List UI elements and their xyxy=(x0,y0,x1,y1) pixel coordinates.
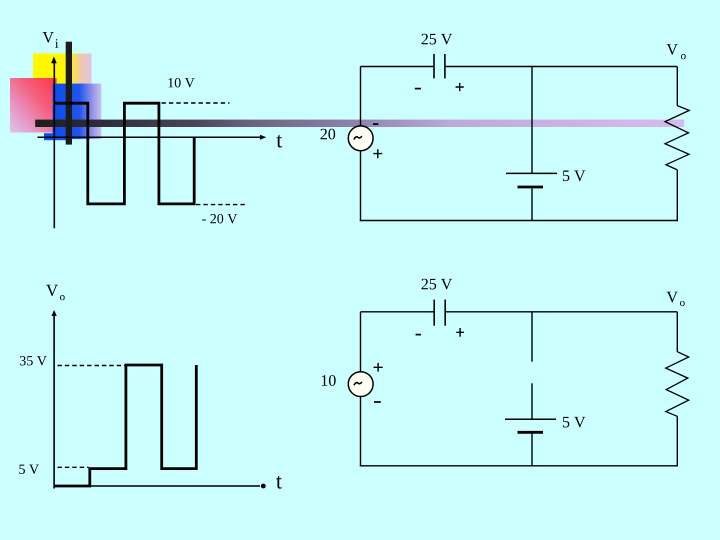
wire middle branch upper (top circuit) xyxy=(531,67,533,174)
wire middle branch upper (bottom circuit, above gap) xyxy=(531,312,533,362)
t axis (top waveform) xyxy=(38,136,261,138)
t axis end dot (bottom waveform) xyxy=(261,484,266,489)
label Vo (top circuit) xyxy=(667,44,678,55)
label 5 V (top battery) xyxy=(563,171,585,182)
ac source V1 circle xyxy=(348,126,373,151)
wire left branch lower (bottom circuit) xyxy=(360,396,362,466)
minus sign of V1 xyxy=(373,123,378,125)
dashed 10V reference line xyxy=(162,102,230,104)
label 35 V xyxy=(20,356,47,365)
battery B1 5 V: long plate xyxy=(506,172,557,174)
label Vo (waveform) xyxy=(46,285,58,296)
Vi vertical axis arrowhead xyxy=(51,57,57,64)
label t (bottom waveform) xyxy=(276,476,282,489)
label 25 V (bottom capacitor) xyxy=(422,279,453,290)
Vo vertical axis arrowhead xyxy=(52,310,57,316)
decorative yellow gradient square xyxy=(33,54,92,86)
wire bottom (top circuit) xyxy=(360,220,678,222)
decorative horizontal gradient bar xyxy=(35,120,684,127)
wire right branch upper (bottom circuit) xyxy=(676,312,678,352)
wire middle branch below gap (bottom circuit) xyxy=(531,383,533,419)
resistor R1 zigzag xyxy=(665,106,689,170)
wire right branch upper (top circuit) xyxy=(676,67,678,106)
minus sign of C1 xyxy=(415,88,421,90)
label 10 V xyxy=(168,78,194,88)
dashed 35V reference line xyxy=(58,365,125,367)
Vi vertical axis xyxy=(53,62,55,228)
label t (top waveform) xyxy=(276,135,282,148)
wire left branch upper (bottom circuit) xyxy=(360,312,362,372)
Vo vertical axis xyxy=(53,314,55,489)
dashed 5V reference line xyxy=(58,466,89,468)
wire middle branch lower (bottom circuit) xyxy=(531,434,533,466)
minus sign of C2 xyxy=(416,334,421,336)
capacitor C1 25 V: right plate xyxy=(444,54,446,78)
wire top left segment xyxy=(361,66,434,68)
capacitor C2 25 V: left plate xyxy=(433,300,435,326)
label 20 (source value) xyxy=(321,129,336,140)
wire right branch lower (bottom circuit) xyxy=(676,416,678,466)
plus sign of V1 xyxy=(373,149,382,158)
plus sign of C1 xyxy=(456,83,464,91)
label 5 V (waveform) xyxy=(19,465,39,474)
t axis arrowhead (top waveform) xyxy=(260,135,266,140)
wire left branch lower xyxy=(360,151,362,222)
plus sign of V2 xyxy=(374,363,383,372)
capacitor C2 25 V: right plate xyxy=(444,300,446,326)
decorative red gradient square xyxy=(10,78,57,133)
wire top right segment xyxy=(445,66,677,68)
label 5 V (bottom battery) xyxy=(563,417,585,428)
square wave Vi xyxy=(55,103,195,204)
minus sign of V2 xyxy=(374,401,381,403)
wire left branch upper xyxy=(360,67,362,127)
ac source V1 tilde xyxy=(354,136,362,139)
battery B1 5 V: short plate xyxy=(518,186,544,189)
battery B2 5 V: long plate xyxy=(505,418,556,420)
label Vo (bottom circuit) xyxy=(667,292,678,303)
decorative small blue tab xyxy=(44,133,66,140)
label 10 (source value) xyxy=(322,375,336,386)
ac source V2 tilde xyxy=(354,382,362,385)
wire middle branch lower (top circuit) xyxy=(531,188,533,220)
plus sign of C2 xyxy=(456,328,464,337)
capacitor C1 25 V: left plate xyxy=(433,54,435,78)
label - 20 V xyxy=(202,214,237,224)
resistor R2 zigzag xyxy=(666,352,689,417)
staircase wave Vo xyxy=(54,365,196,486)
battery B2 5 V: short plate xyxy=(518,431,544,434)
label Vi xyxy=(43,32,54,43)
decorative vertical black bar xyxy=(66,42,72,145)
dashed -20V reference line xyxy=(196,204,245,206)
wire right branch lower (top circuit) xyxy=(676,170,678,221)
decorative blue gradient square xyxy=(53,84,102,140)
ac source V2 circle xyxy=(348,372,373,397)
label 25 V (top capacitor) xyxy=(422,34,453,45)
wire bottom (bottom circuit) xyxy=(360,465,678,467)
wire top left segment (bottom circuit) xyxy=(361,311,435,313)
t axis (bottom waveform) xyxy=(54,485,260,487)
wire top right segment (bottom circuit) xyxy=(445,311,677,313)
